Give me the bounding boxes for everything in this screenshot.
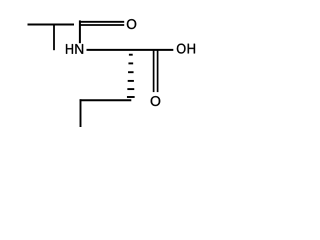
atom label H of OH (hydroxyl) — [188, 44, 195, 54]
bond C-N (carbonyl carbon to amide nitrogen, vertical) — [79, 20, 81, 43]
bond CH3-CH (top-left horizontal) — [28, 24, 75, 26]
bond CH-CH3 (branch methyl vertical) — [53, 24, 55, 51]
bond C=O lower line (amide carbonyl) — [79, 24, 124, 26]
bond side-chain CH2-CH2 (horizontal) — [80, 99, 132, 101]
bond C=O right line (carboxyl, vertical) — [157, 50, 159, 92]
atom label O (carboxyl oxygen, bottom) — [151, 96, 161, 106]
bond C=O left line (carboxyl, vertical) — [153, 50, 155, 92]
atom label O (amide oxygen, top) — [127, 19, 136, 29]
atom label H of HN (amide) — [66, 44, 73, 54]
atom label O of OH (hydroxyl) — [177, 44, 186, 54]
bond C=O upper line (amide carbonyl) — [79, 21, 124, 23]
bond side-chain CH2-CH3 (vertical) — [80, 99, 82, 127]
hashed stereo bond from alpha carbon (6 dashes) — [127, 54, 135, 98]
bond N-Calpha-Ccarboxyl (main horizontal chain) — [87, 49, 174, 51]
chemical structure diagram: N-acyl amino acid skeletal formula — [0, 0, 223, 146]
atom label N of HN (amide) — [75, 44, 83, 54]
